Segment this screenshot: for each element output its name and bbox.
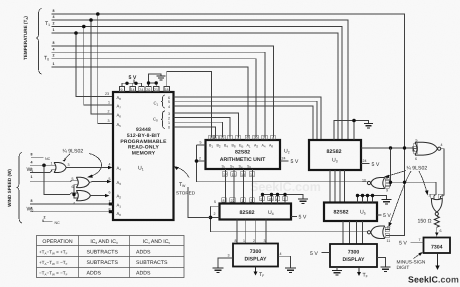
svg-text:24: 24 — [282, 157, 286, 161]
svg-text:150 Ω: 150 Ω — [418, 218, 432, 224]
junction dot — [96, 12, 100, 16]
svg-text:23: 23 — [105, 92, 109, 96]
svg-text:6: 6 — [109, 191, 111, 195]
pin boxes AU top — [209, 135, 443, 238]
svg-text:7304: 7304 — [431, 245, 443, 251]
wire ROM pin18 to AU — [167, 72, 212, 138]
wire U3 outputs to U5 — [329, 170, 331, 203]
svg-text:18: 18 — [165, 88, 169, 92]
annotation arrow to gate7 — [390, 171, 412, 225]
wire T0 bit1 — [52, 67, 249, 138]
pin boxes gate8 inputs — [431, 194, 435, 198]
pin boxes gate7 inputs — [385, 227, 389, 231]
svg-text:2: 2 — [429, 194, 431, 198]
svg-text:4: 4 — [109, 163, 111, 167]
display2 left ground pin — [336, 267, 338, 271]
svg-text:8: 8 — [235, 239, 237, 243]
wire C0 bit to AU — [174, 118, 231, 138]
wire drop to ROM A6 — [91, 20, 113, 114]
svg-text:1: 1 — [243, 239, 245, 243]
svg-text:3: 3 — [264, 239, 266, 243]
svg-text:2: 2 — [53, 22, 55, 26]
svg-text:24: 24 — [139, 88, 143, 92]
svg-text:ADDS: ADDS — [87, 271, 102, 277]
U5 grounded pins bus — [358, 196, 387, 203]
annotation arrow to gate2 — [89, 154, 102, 177]
svg-text:1: 1 — [51, 162, 53, 166]
svg-text:DIGIT: DIGIT — [397, 265, 410, 271]
svg-text:STORED: STORED — [176, 191, 196, 196]
wire gate3 output to ROM A2 — [91, 195, 107, 197]
ground symbol — [364, 124, 373, 128]
svg-text:OPERATION: OPERATION — [42, 239, 72, 245]
gate7 input stubs — [385, 229, 390, 231]
svg-text:5 V: 5 V — [399, 240, 407, 246]
svg-text:16: 16 — [210, 136, 214, 140]
wire C0 bit to AU — [174, 127, 216, 138]
gate6 input bus to gate8 — [391, 182, 437, 198]
wire resistor to 7304 — [436, 227, 438, 237]
ground symbol — [157, 76, 166, 80]
svg-text:5 V: 5 V — [291, 159, 299, 165]
ROM top pin 21 — [154, 87, 160, 92]
U4 pin 24 5V — [291, 216, 297, 218]
svg-text:6: 6 — [72, 185, 74, 189]
svg-text:2: 2 — [253, 239, 255, 243]
junction dot — [82, 25, 86, 29]
svg-text:8: 8 — [31, 153, 33, 157]
svg-text:ADDS: ADDS — [136, 271, 151, 277]
svg-text:20: 20 — [254, 136, 258, 140]
wire drop to ROM A8 — [76, 33, 113, 97]
svg-text:6: 6 — [415, 157, 417, 161]
NOR gate U6d vertical pointing down — [431, 198, 442, 212]
svg-text:5 V: 5 V — [129, 75, 137, 81]
wire T0 bit4 — [52, 52, 266, 137]
svg-text:0: 0 — [168, 126, 170, 130]
wire S8 to U4 — [252, 169, 254, 204]
svg-text:21: 21 — [154, 88, 158, 92]
wire U5 outputs to display2 — [342, 221, 344, 244]
svg-text:IC4 AND IC5: IC4 AND IC5 — [143, 239, 171, 245]
svg-text:¼ 9LS02: ¼ 9LS02 — [63, 149, 84, 155]
display2 output arrow TF — [358, 267, 360, 273]
gate6 input stubs — [385, 179, 391, 181]
svg-text:4: 4 — [53, 15, 55, 19]
display U7 7300 — [330, 244, 377, 267]
svg-text:5: 5 — [416, 139, 418, 143]
wire S2 to U4 — [233, 169, 235, 204]
svg-text:82S82: 82S82 — [326, 149, 341, 155]
wire AU carry from gate6 — [197, 145, 368, 182]
display2 right ground pin — [377, 258, 386, 268]
svg-text:8: 8 — [31, 199, 33, 203]
pin boxes U4 top — [222, 198, 227, 203]
wire drop to ROM A5 — [98, 14, 113, 124]
wire gate2 output to ROM A3 — [90, 182, 109, 183]
wire C1 bit to U3 — [174, 106, 314, 140]
svg-text:7: 7 — [419, 238, 421, 242]
svg-text:1: 1 — [53, 28, 55, 32]
pin boxes gate6 inputs — [385, 178, 389, 182]
svg-text:5: 5 — [72, 177, 74, 181]
7304 output arrow — [437, 253, 439, 266]
wire T0 bit2 — [52, 59, 257, 138]
svg-text:4: 4 — [53, 47, 55, 51]
wire W0 bit4 to ROM A0 — [30, 211, 113, 213]
wire T1 bit8 — [52, 14, 405, 236]
wire W1 bit2 to gate1 — [30, 170, 56, 173]
svg-text:5: 5 — [168, 100, 170, 104]
svg-text:MINUS-SIGN: MINUS-SIGN — [397, 260, 426, 266]
svg-text:1: 1 — [53, 62, 55, 66]
NOR gate U8a — [54, 163, 66, 173]
NOR gate U8c — [76, 191, 90, 201]
svg-text:4: 4 — [272, 136, 274, 140]
svg-text:2: 2 — [44, 216, 46, 220]
NOR gate U8b — [76, 177, 89, 187]
NOR gate U6a top right — [415, 142, 437, 155]
wire S4 to U4 — [243, 169, 245, 204]
wire C0 bit to AU — [174, 113, 239, 138]
svg-text:8: 8 — [53, 9, 55, 13]
svg-text:4: 4 — [168, 105, 170, 109]
resistor R1 150 ohm — [436, 215, 438, 218]
ROM top pin 20 — [146, 87, 152, 92]
svg-text:DISPLAY: DISPLAY — [342, 257, 365, 263]
junction dot — [89, 18, 93, 22]
svg-text:10: 10 — [362, 179, 366, 183]
svg-text:7300: 7300 — [250, 249, 262, 255]
wire gate5 area vertical — [390, 148, 392, 186]
svg-text:8: 8 — [215, 136, 217, 140]
svg-text:9: 9 — [121, 88, 123, 92]
wire drop to ROM A7 — [84, 27, 113, 106]
svg-text:5: 5 — [200, 141, 202, 145]
svg-text:8: 8 — [386, 176, 388, 180]
svg-text:DISPLAY: DISPLAY — [244, 257, 267, 263]
wire C1 bit to U3 — [174, 101, 318, 140]
pin boxes AU bottom — [222, 172, 227, 177]
display U6 7300 — [233, 244, 278, 267]
svg-text:2: 2 — [214, 212, 216, 216]
svg-text:22: 22 — [221, 136, 225, 140]
ground symbol — [382, 200, 392, 205]
svg-text:ARITHMETIC UNIT: ARITHMETIC UNIT — [220, 157, 266, 163]
IC U4 82S82 — [220, 204, 292, 220]
wire W1 bit1 to gate2 — [30, 180, 78, 182]
display1 output arrow TF — [255, 267, 257, 273]
svg-text:¼ 9LS02: ¼ 9LS02 — [407, 165, 428, 171]
svg-text:12: 12 — [387, 226, 391, 230]
wire TW stored vertical to U4 pin2 — [188, 187, 211, 217]
svg-text:21: 21 — [263, 136, 267, 140]
wire T1 bit4 — [52, 20, 349, 140]
svg-text:2: 2 — [108, 110, 110, 114]
junction dot — [209, 216, 213, 220]
U4 grounded pins bus — [263, 195, 304, 204]
svg-text:2: 2 — [31, 168, 33, 172]
wire gate1 output to ROM A4 — [67, 167, 111, 169]
annotation arrow to gate1 — [65, 154, 71, 159]
annotation arrow to gate6 — [387, 171, 407, 177]
NOR gate U6c mirrored (to U4 carry) — [371, 226, 385, 239]
svg-text:SeekIC.com: SeekIC.com — [408, 275, 459, 285]
svg-text:1: 1 — [31, 175, 33, 179]
ground ROM pins 20 21 — [149, 83, 157, 87]
svg-text:82S82: 82S82 — [333, 210, 348, 216]
svg-text:5 V: 5 V — [383, 213, 391, 219]
wire S1 to U4 — [225, 169, 227, 204]
svg-text:MEMORY: MEMORY — [132, 150, 156, 156]
svg-text:4: 4 — [31, 160, 33, 164]
svg-text:5: 5 — [109, 177, 111, 181]
svg-text:14: 14 — [131, 88, 135, 92]
ROM top pin 14 — [130, 87, 136, 92]
svg-text:3: 3 — [68, 163, 70, 167]
svg-text:1: 1 — [229, 136, 231, 140]
svg-text:1: 1 — [108, 101, 110, 105]
svg-text:5: 5 — [214, 200, 216, 204]
ground symbol — [332, 271, 342, 276]
U5 5V pin — [377, 214, 382, 216]
svg-text:4: 4 — [280, 252, 282, 256]
wire T1 bit1 — [52, 33, 339, 140]
ground symbol — [285, 268, 296, 273]
ground symbol — [298, 199, 308, 204]
ROM top pin 24 — [139, 87, 145, 92]
svg-text:2: 2 — [53, 54, 55, 58]
svg-text:2: 2 — [199, 157, 201, 161]
svg-text:2: 2 — [168, 116, 170, 120]
pin boxes gate5 inputs — [413, 144, 417, 148]
IC 7304 minus sign — [424, 238, 451, 254]
wire W1 bit4 drop to gate3 — [44, 165, 78, 194]
IC U3 82S82 — [309, 140, 361, 170]
wire W0 bit8 to ROM A1 — [30, 203, 113, 205]
ground symbol — [213, 268, 224, 273]
annotation arrow to gate8 — [419, 171, 427, 193]
svg-text:82S82: 82S82 — [239, 210, 254, 216]
svg-text:7300: 7300 — [348, 250, 360, 256]
svg-text:4: 4 — [441, 143, 443, 147]
wire U4 carry from gate7 — [211, 206, 368, 232]
brace temperature — [36, 9, 42, 75]
svg-text:11: 11 — [387, 239, 391, 243]
svg-text:6: 6 — [440, 229, 442, 233]
svg-text:IC2 AND IC3: IC2 AND IC3 — [90, 239, 118, 245]
wire W1 bit4 to gate1 — [30, 164, 56, 166]
svg-text:8: 8 — [53, 41, 55, 45]
svg-text:24: 24 — [363, 159, 367, 163]
svg-text:1: 1 — [168, 121, 170, 125]
svg-text:5 V: 5 V — [310, 251, 318, 257]
svg-text:2: 2 — [51, 169, 53, 173]
NOR gate U6b mirrored (to AU carry) — [371, 178, 385, 189]
ROM top pin 18 — [164, 87, 170, 92]
svg-text:5 V: 5 V — [372, 162, 380, 168]
svg-text:NC: NC — [55, 221, 61, 225]
svg-text:3: 3 — [237, 136, 239, 140]
svg-text:3: 3 — [228, 254, 230, 258]
wire T1 bit2 — [52, 27, 343, 141]
junction dot — [195, 159, 199, 163]
ROM U1 93448 — [113, 92, 174, 220]
svg-text:4: 4 — [31, 207, 33, 211]
junction dot — [74, 31, 78, 35]
svg-text:9: 9 — [247, 136, 249, 140]
wire U4 outputs to display1 — [236, 220, 238, 244]
svg-text:ADDS: ADDS — [136, 250, 151, 256]
wire W0 bit2 NC — [43, 219, 53, 222]
wire T0 bit8 — [52, 46, 274, 138]
svg-text:3: 3 — [108, 119, 110, 123]
svg-text:4: 4 — [73, 202, 75, 206]
wire C0 bit to AU — [174, 122, 223, 137]
svg-text:5 V: 5 V — [299, 215, 307, 221]
IC U5 82S82 — [324, 203, 377, 222]
operation table — [37, 236, 185, 278]
ground symbol — [381, 267, 391, 272]
svg-text:82S82: 82S82 — [235, 150, 250, 156]
wire U3 output to gate5 — [361, 148, 415, 151]
wire W1 bit8 NC — [31, 157, 44, 159]
ROM top pin 9 — [120, 87, 125, 92]
svg-text:SUBTRACTS: SUBTRACTS — [87, 260, 119, 266]
svg-text:9: 9 — [386, 189, 388, 193]
wire C1 bit to U3 — [174, 97, 322, 140]
brace wind — [17, 153, 23, 224]
op-amp U2 82S82 arithmetic unit — [206, 140, 281, 169]
svg-text:20: 20 — [146, 88, 150, 92]
wire gate2 in2 — [74, 184, 78, 186]
gate5 output wire — [441, 149, 445, 199]
svg-text:WIND SPEED (W): WIND SPEED (W) — [7, 169, 12, 207]
svg-text:SUBTRACTS: SUBTRACTS — [87, 250, 119, 256]
annotation arrow digit to 7304 — [414, 254, 421, 259]
U3 ground bus — [334, 121, 369, 141]
svg-text:SUBTRACTS: SUBTRACTS — [136, 260, 168, 266]
svg-text:NC: NC — [45, 157, 51, 161]
gate5 tied input stubs — [413, 146, 417, 148]
